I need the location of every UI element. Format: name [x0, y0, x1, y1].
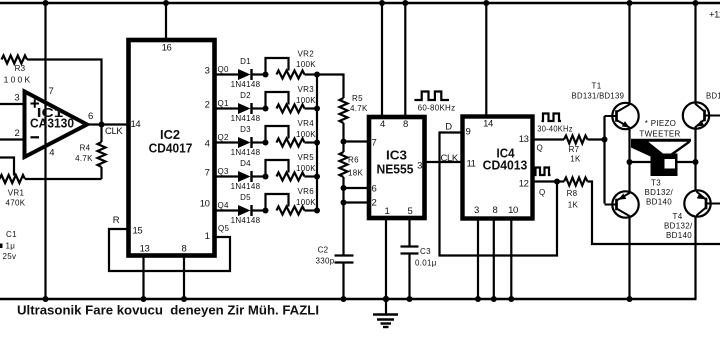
waveform 30-40KHz at Q13	[537, 114, 573, 134]
wire R5 to R6	[341, 123, 347, 152]
svg-text:R3: R3	[15, 64, 26, 73]
svg-text:10: 10	[508, 205, 518, 216]
diode D2 1N4148	[231, 91, 266, 123]
junction node D4-VR5	[263, 174, 269, 180]
junction node D2-VR3	[263, 106, 269, 112]
svg-text:Q5: Q5	[218, 224, 230, 233]
title caption	[17, 304, 319, 318]
svg-text:Q: Q	[539, 188, 546, 197]
svg-text:12: 12	[519, 179, 529, 190]
wire IC3 pin 8 to +V	[402, 0, 408, 118]
junction node D1-VR2	[263, 72, 269, 78]
svg-text:R6: R6	[348, 156, 359, 165]
svg-text:100K: 100K	[296, 130, 316, 139]
svg-text:1N4148: 1N4148	[231, 80, 261, 89]
wire IC2 output Q2	[215, 133, 239, 143]
svg-text:VR2: VR2	[298, 50, 315, 59]
potentiometer VR1	[0, 158, 26, 208]
transistor T1 BD131/BD139	[572, 82, 639, 130]
wire IC2 output Q0	[215, 65, 239, 75]
wire IC3 pin 2 stub	[344, 201, 370, 203]
transistor T3 BD132/BD140	[605, 179, 674, 218]
svg-text:1N4148: 1N4148	[231, 216, 261, 225]
trimmer VR4 100K	[266, 119, 318, 147]
wire VR1 to R4	[25, 178, 102, 180]
svg-text:BD131/BD139: BD131/BD139	[572, 92, 625, 101]
wire IC4 pin 8 to ground	[491, 221, 497, 303]
junction node D5-VR6	[263, 208, 269, 214]
svg-text:100K: 100K	[296, 198, 316, 207]
wire supply to IC1 pins 7/4	[43, 0, 49, 302]
wire IC4 pin 13 to R7	[533, 138, 565, 140]
wire IC4 pin 14 to +V	[483, 0, 489, 118]
resistor R8 1K	[564, 178, 588, 210]
wire T1 collector / T3 collector chain	[627, 0, 633, 302]
svg-text:VR6: VR6	[298, 187, 315, 196]
svg-text:BD132/: BD132/	[664, 222, 693, 231]
trimmer VR2 100K	[266, 50, 318, 79]
wire D loop pin9 to pin12	[440, 122, 561, 256]
diode D1 1N4148	[231, 57, 266, 89]
resistor R5	[340, 94, 369, 123]
svg-text:1μ: 1μ	[6, 242, 16, 251]
svg-text:13: 13	[140, 244, 150, 255]
svg-text:R4: R4	[80, 144, 91, 153]
waveform at Q12	[534, 168, 551, 176]
wire IC2 pin 8 to ground	[181, 256, 187, 303]
svg-text:BD140: BD140	[666, 231, 692, 240]
svg-text:CLK: CLK	[441, 153, 459, 164]
svg-text:3: 3	[417, 161, 422, 172]
svg-text:VR5: VR5	[298, 153, 315, 162]
svg-text:D: D	[445, 122, 452, 133]
wire output to IC2 pin 14	[87, 125, 129, 138]
svg-text:3: 3	[474, 205, 479, 216]
svg-text:2: 2	[205, 100, 210, 111]
svg-text:15: 15	[133, 226, 143, 237]
svg-text:4: 4	[380, 119, 385, 130]
svg-text:VR4: VR4	[298, 119, 315, 128]
junction VR3 bus	[314, 106, 320, 112]
svg-text:7: 7	[205, 168, 210, 179]
svg-text:D4: D4	[240, 159, 251, 168]
wire IC4 pin 12 to R8	[533, 180, 565, 182]
wire R6 to C2	[341, 177, 347, 255]
wire IC3 pin3 to IC4 pin11 CLK	[425, 153, 463, 164]
IC4 CD4013	[463, 117, 533, 219]
svg-text:9: 9	[466, 127, 471, 138]
junction VR2 bus	[314, 72, 320, 78]
svg-text:Ultrasonik Fare kovucu deneye: Ultrasonik Fare kovucu deneyen Zir Müh. …	[17, 304, 319, 318]
junction VR6 bus	[314, 208, 320, 214]
wire IC2 output Q1	[215, 99, 239, 109]
diode D5 1N4148	[231, 193, 266, 225]
svg-text:T1: T1	[592, 82, 602, 91]
svg-text:5: 5	[408, 206, 413, 217]
wire IC3 pin 4 to +V	[379, 0, 385, 118]
transistor T4 BD132/BD140	[664, 190, 720, 240]
svg-text:BD132/: BD132/	[645, 188, 674, 197]
svg-text:C3: C3	[420, 247, 431, 256]
svg-text:+12V: +12V	[709, 10, 720, 21]
junction VR5 bus	[314, 174, 320, 180]
svg-text:7: 7	[49, 86, 54, 97]
diode D4 1N4148	[231, 159, 266, 191]
wire input pin 3	[0, 103, 26, 105]
svg-text:4: 4	[205, 139, 210, 150]
svg-text:R8: R8	[567, 189, 578, 198]
svg-text:6: 6	[88, 111, 93, 122]
svg-text:D3: D3	[240, 125, 251, 134]
IC3 NE555	[369, 117, 425, 218]
svg-text:CD4013: CD4013	[483, 157, 528, 172]
svg-text:T4: T4	[673, 212, 683, 221]
wire R7 to T1/T3 bases	[588, 116, 608, 204]
resistor R4	[75, 125, 105, 180]
label +12V	[709, 10, 720, 21]
wire IC3 pin 1 to ground	[383, 220, 389, 303]
svg-text:16: 16	[162, 43, 172, 54]
wire IC2 pin 13 to ground	[141, 256, 147, 303]
svg-text:2: 2	[372, 198, 377, 209]
resistor R7 1K	[564, 136, 588, 164]
capacitor C3 0.01u	[401, 220, 437, 303]
wire feedback R3 to output	[27, 60, 102, 125]
svg-text:8: 8	[493, 205, 498, 216]
junction VR4 bus	[314, 140, 320, 146]
svg-text:25v: 25v	[3, 252, 17, 261]
svg-text:R: R	[113, 215, 120, 226]
svg-text:C2: C2	[318, 246, 329, 255]
svg-text:CLK: CLK	[105, 126, 123, 137]
svg-text:R5: R5	[352, 94, 363, 103]
svg-text:D1: D1	[240, 57, 251, 66]
svg-text:1: 1	[205, 231, 210, 242]
svg-text:8: 8	[182, 244, 187, 255]
svg-text:CD4017: CD4017	[149, 141, 193, 156]
resistor R3	[2, 56, 33, 85]
svg-text:TWEETER: TWEETER	[639, 130, 680, 139]
svg-text:60-80KHz: 60-80KHz	[418, 104, 456, 113]
wire summing bus	[316, 75, 318, 211]
svg-text:1N4148: 1N4148	[231, 148, 261, 157]
svg-text:14: 14	[131, 119, 141, 130]
wire IC3 pin 6 stub	[344, 187, 370, 189]
wire IC3 pin 7 stub	[344, 140, 370, 142]
junction node D3-VR4	[263, 140, 269, 146]
wire T2 emitter / T4 chain	[693, 0, 699, 299]
svg-text:D5: D5	[240, 193, 251, 202]
svg-text:C1: C1	[6, 230, 17, 239]
svg-text:1K: 1K	[568, 201, 579, 210]
svg-text:3: 3	[205, 66, 210, 77]
svg-text:2: 2	[14, 128, 19, 139]
svg-text:Q1: Q1	[218, 99, 230, 108]
svg-text:NE555: NE555	[377, 162, 414, 177]
svg-text:VR1: VR1	[8, 189, 25, 198]
op-amp IC1 CA3130	[14, 86, 93, 159]
svg-text:Q4: Q4	[218, 201, 230, 210]
svg-text:18K: 18K	[348, 169, 363, 178]
wire IC2 output Q4	[215, 201, 239, 211]
svg-text:14: 14	[483, 119, 493, 130]
svg-text:BD140: BD140	[646, 198, 672, 207]
svg-text:1K: 1K	[570, 155, 581, 164]
piezo tweeter	[631, 119, 691, 176]
svg-text:Q0: Q0	[218, 65, 230, 74]
svg-text:0.01μ: 0.01μ	[415, 259, 437, 268]
svg-text:330p.: 330p.	[315, 257, 337, 266]
ground rail	[0, 298, 697, 300]
wire IC2 pin 16 to +V	[163, 0, 169, 42]
svg-text:VR3: VR3	[298, 85, 315, 94]
svg-text:8: 8	[403, 119, 408, 130]
svg-text:6: 6	[372, 184, 377, 195]
svg-text:4.7K: 4.7K	[75, 154, 93, 163]
label Q pin12	[539, 188, 546, 197]
trimmer VR5 100K	[266, 153, 318, 181]
svg-text:1: 1	[385, 206, 390, 217]
svg-text:Q3: Q3	[218, 167, 230, 176]
wire input pin 2	[0, 138, 26, 140]
resistor R6	[340, 152, 364, 178]
transistor T2 BD131/BD139	[683, 92, 720, 129]
label Qbar pin13	[537, 144, 544, 153]
svg-text:D2: D2	[240, 91, 251, 100]
svg-text:T3: T3	[651, 179, 661, 188]
svg-text:10: 10	[200, 199, 210, 210]
IC2 CD4017	[129, 40, 215, 256]
capacitor C1	[0, 230, 17, 261]
svg-text:13: 13	[519, 134, 529, 145]
svg-text:BD131/BD139: BD131/BD139	[706, 92, 720, 101]
ground symbol	[373, 299, 398, 327]
trimmer VR3 100K	[266, 85, 318, 113]
svg-text:7: 7	[372, 138, 377, 149]
svg-text:30-40KHz: 30-40KHz	[537, 125, 573, 134]
svg-text:IC3: IC3	[386, 148, 407, 163]
svg-text:1N4148: 1N4148	[231, 182, 261, 191]
wire Q5 pin1 to R pin15	[109, 215, 230, 271]
wire piezo bridge	[627, 159, 699, 165]
wire IC4 pin 10 to ground	[508, 221, 514, 303]
node CLK output junction	[99, 122, 105, 128]
svg-text:R7: R7	[569, 145, 580, 154]
svg-text:4.7K: 4.7K	[350, 104, 368, 113]
svg-text:100K: 100K	[296, 96, 316, 105]
svg-text:470K: 470K	[6, 199, 26, 208]
svg-text:* PIEZO: * PIEZO	[645, 119, 676, 128]
wire IC2 output Q3	[215, 167, 239, 177]
wire R8 to T2/T4 bases	[588, 182, 720, 245]
trimmer VR6 100K	[266, 187, 318, 215]
svg-text:100K: 100K	[296, 60, 316, 69]
svg-text:CA3130: CA3130	[30, 117, 74, 131]
svg-text:100K: 100K	[4, 75, 33, 85]
power rail +12V	[0, 2, 720, 4]
svg-text:11: 11	[467, 159, 476, 170]
svg-text:1N4148: 1N4148	[231, 114, 261, 123]
wire IC4 pin 3 to ground	[475, 221, 481, 303]
waveform 60-80KHz	[414, 92, 455, 113]
svg-text:3: 3	[14, 93, 19, 104]
svg-text:Q2: Q2	[218, 133, 230, 142]
diode D3 1N4148	[231, 125, 266, 157]
svg-text:Q: Q	[537, 144, 544, 153]
wire bus to R5	[317, 75, 344, 99]
svg-text:100K: 100K	[296, 164, 316, 173]
svg-text:4: 4	[49, 148, 54, 159]
capacitor C2 330p	[315, 246, 353, 303]
